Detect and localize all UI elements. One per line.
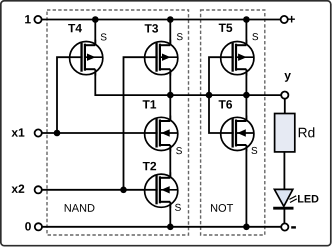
wire: T4 drain down and NAND output line to y — [95, 69, 281, 95]
wire: T1 drain up to output line — [169, 95, 171, 121]
junction dot rail-T3 — [167, 16, 174, 23]
junction dot ground T6 — [243, 224, 250, 231]
label y — [284, 73, 291, 82]
terminal node 0 — [35, 223, 42, 230]
transistor T5 — [221, 40, 254, 76]
wire: x1 input line to T1 gate — [42, 132, 157, 134]
NOT dashed box — [201, 10, 265, 235]
label NOT — [211, 204, 233, 212]
label S of T2 — [175, 204, 181, 211]
label S of T5 — [252, 33, 258, 40]
wire: LED to minus terminal — [283, 210, 285, 224]
label x2 — [11, 185, 24, 193]
wire: x2 riser to T3 gate — [124, 57, 158, 190]
wire: T3 source to rail — [169, 20, 171, 46]
terminal node - — [281, 223, 288, 230]
label x1 — [11, 128, 24, 136]
junction dot x1 — [54, 130, 61, 137]
wire: T3 drain to output line — [169, 69, 171, 95]
wire: Rd to LED — [283, 152, 285, 191]
label 1 — [25, 15, 31, 23]
wire: NOT input riser to T6 gate — [209, 95, 233, 133]
terminal node 1 — [34, 16, 41, 23]
wire: T5 drain to output line — [245, 69, 247, 95]
junction dot output T5/T6 — [243, 92, 250, 99]
label Rd — [299, 127, 315, 137]
wire: T6 source to ground rail — [245, 144, 247, 226]
resistor Rd — [275, 114, 295, 152]
label 0 — [25, 222, 31, 230]
label S of T3 — [177, 33, 183, 40]
label - — [291, 226, 296, 228]
wire: T5 source to rail — [245, 20, 247, 46]
transistor T4 — [70, 40, 103, 76]
wire: T4 source to rail — [94, 20, 96, 46]
NAND dashed box — [47, 10, 189, 235]
terminal node y — [281, 92, 288, 99]
label T1 — [143, 100, 157, 108]
wire: x1 riser to T4 gate — [57, 57, 82, 133]
wire: y terminal to Rd — [284, 99, 286, 114]
wire: T1 source to T2 drain — [169, 144, 171, 178]
label T5 — [219, 24, 233, 32]
transistor T2 — [145, 172, 178, 208]
label T3 — [145, 24, 158, 33]
label S of T4 — [101, 33, 107, 40]
label T6 — [219, 100, 232, 108]
terminal node x1 — [35, 129, 42, 136]
wire: top supply rail (node 1 to +) — [42, 19, 281, 21]
junction dot rail-T4 — [92, 16, 99, 23]
wire: NOT input riser to T5 gate — [209, 57, 233, 95]
junction dot ground T2 — [167, 224, 174, 231]
wire: T6 drain up to output line — [245, 95, 247, 121]
transistor T3 — [145, 40, 178, 76]
junction dot output T1/T3 — [167, 92, 174, 99]
terminal node + — [281, 16, 288, 23]
transistor T1 — [145, 116, 178, 152]
terminal node x2 — [35, 186, 42, 193]
wire: T2 source to ground rail — [169, 201, 171, 227]
label S of T6 — [251, 147, 257, 154]
junction dot x2 — [120, 187, 127, 194]
LED light rays — [289, 196, 296, 200]
label + — [288, 16, 295, 23]
label NAND — [65, 204, 95, 212]
label T4 — [68, 24, 82, 32]
wire: bottom ground rail (node 0 to -) — [42, 226, 281, 228]
LED cathode bar — [273, 207, 293, 210]
junction dot rail-T5 — [243, 16, 250, 23]
wire: x2 input line to T2 gate — [42, 189, 157, 191]
LED diode — [274, 189, 292, 206]
label T2 — [143, 162, 156, 170]
transistor T6 — [221, 116, 254, 152]
label LED — [298, 195, 318, 202]
label S of T1 — [176, 147, 182, 154]
junction dot output NOT input — [206, 92, 213, 99]
